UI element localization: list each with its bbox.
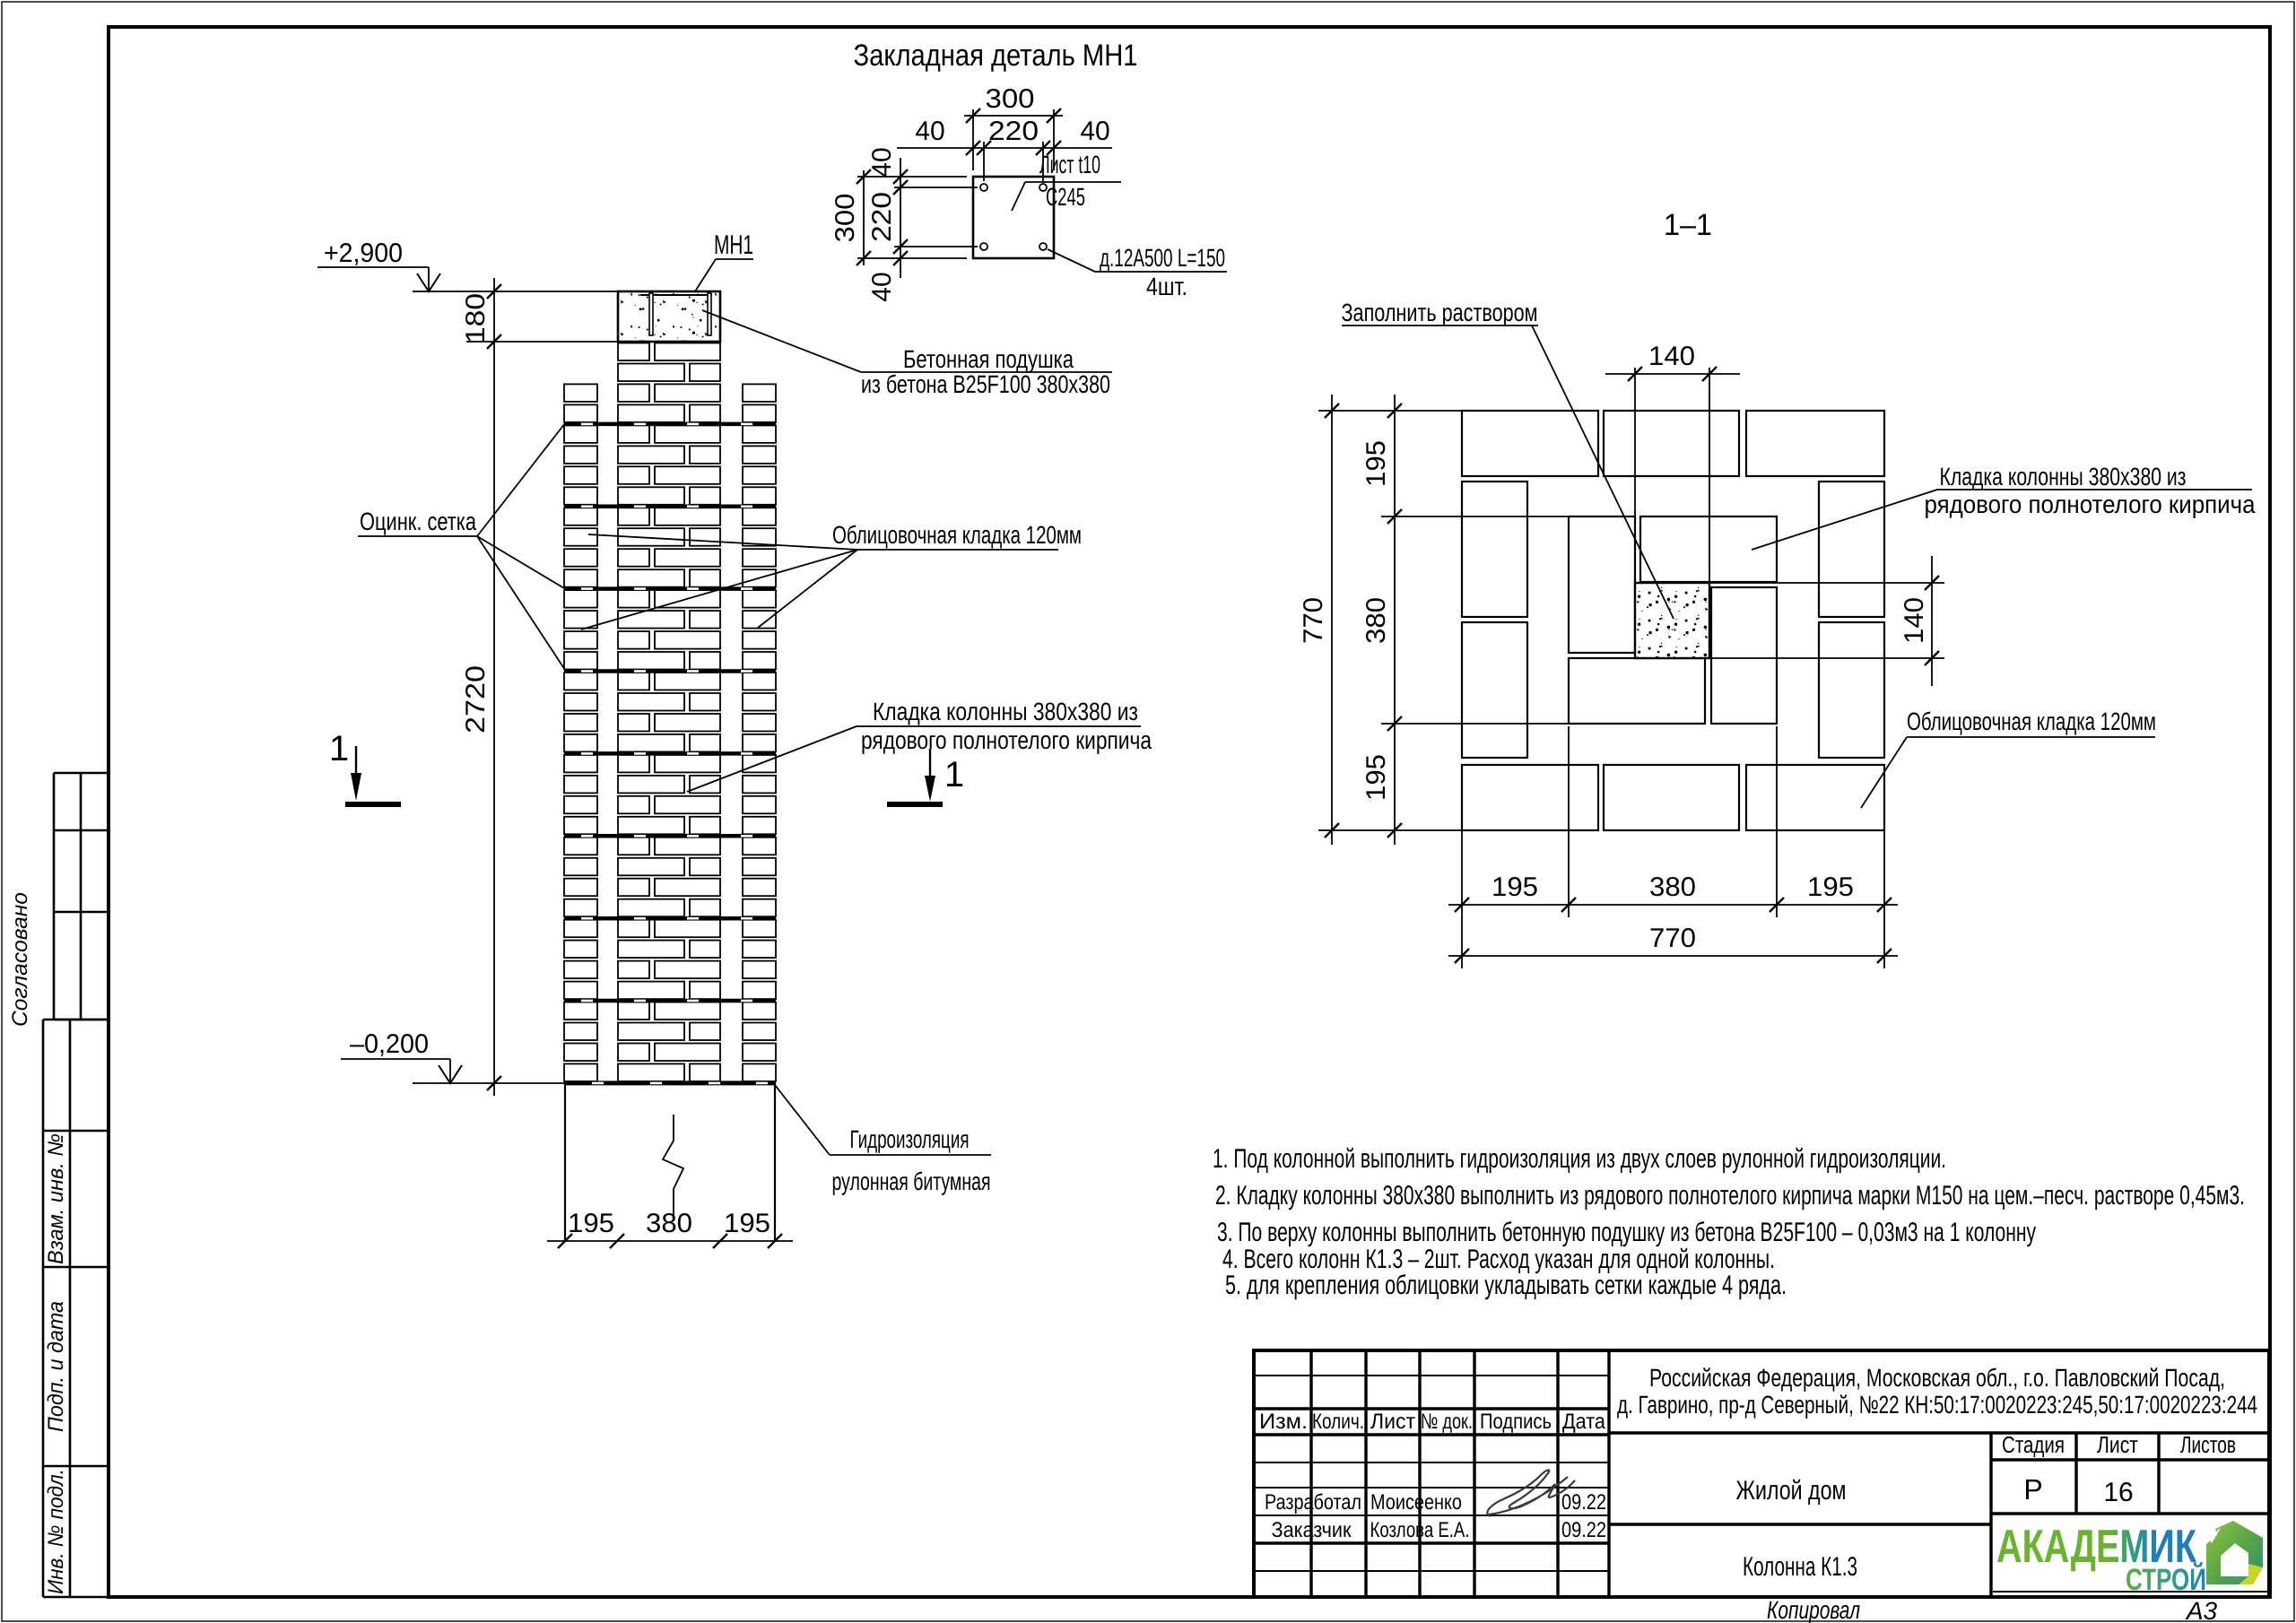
svg-text:195: 195 [1361,440,1391,487]
svg-text:09.22: 09.22 [1561,1518,1606,1542]
svg-text:380: 380 [1649,872,1696,902]
svg-text:5. для крепления облицовки укл: 5. для крепления облицовки укладывать се… [1225,1271,1787,1300]
svg-text:195: 195 [724,1209,770,1238]
svg-text:рядового полнотелого кирпича: рядового полнотелого кирпича [861,726,1152,754]
plate МН1 on pad [640,294,712,296]
svg-text:Взам. инв. №: Взам. инв. № [44,1133,68,1264]
svg-text:220: 220 [988,117,1039,146]
svg-text:+2,900: +2,900 [324,239,403,268]
left dim line 770 [1331,395,1333,845]
svg-text:1: 1 [944,755,964,794]
svg-text:Лист t10: Лист t10 [1039,151,1100,178]
svg-text:16: 16 [2103,1478,2133,1507]
bottom dim line 195/380/195 [1448,904,1898,906]
svg-text:770: 770 [1299,597,1328,644]
svg-text:Козлова Е.А.: Козлова Е.А. [1370,1518,1470,1542]
svg-text:МН1: МН1 [714,230,753,260]
extension lines left [857,176,967,178]
svg-text:из бетона В25F100 380х380: из бетона В25F100 380х380 [861,370,1110,398]
svg-text:Жилой дом: Жилой дом [1736,1476,1847,1506]
svg-text:4шт.: 4шт. [1146,273,1187,300]
signature squiggle [1487,1470,1575,1516]
svg-text:Инв. № подл.: Инв. № подл. [44,1469,68,1594]
svg-text:Заполнить раствором: Заполнить раствором [1342,299,1538,326]
svg-text:Лист: Лист [2097,1431,2138,1458]
extension line pad bottom [466,341,618,343]
svg-text:Листов: Листов [2180,1431,2236,1458]
svg-text:2. Кладку колонны 380х380 выпо: 2. Кладку колонны 380х380 выполнить из р… [1215,1181,2245,1211]
svg-text:Моисеенко: Моисеенко [1370,1490,1462,1515]
svg-text:Закладная деталь МН1: Закладная деталь МН1 [854,39,1138,73]
svg-text:770: 770 [1649,924,1696,953]
svg-text:Разработал: Разработал [1265,1490,1361,1515]
break (zigzag) symbol in foundation [663,1115,683,1216]
leader д.12А500 L=150 / 4шт. [1048,249,1095,272]
brick rows: inner column + facing [564,343,776,1081]
bottom dims extensions [1461,830,1463,968]
svg-text:Лист: Лист [1370,1410,1415,1434]
dim 140 top [1605,373,1740,375]
svg-text:09.22: 09.22 [1561,1490,1606,1515]
title block grid [1254,1350,2269,1597]
svg-text:195: 195 [1361,754,1391,801]
svg-text:Гидроизоляция: Гидроизоляция [850,1125,970,1153]
svg-text:380: 380 [646,1209,692,1238]
svg-text:СТРОЙ: СТРОЙ [2126,1562,2206,1597]
approval table upper [54,772,109,775]
section mark 1 (left) [355,746,357,775]
facing ring bricks (plan) [1462,411,1884,830]
svg-text:Дата: Дата [1562,1410,1606,1434]
svg-text:40: 40 [915,117,944,146]
leader Лист t10 / С245 [1012,182,1025,211]
anchor bars in pad [649,293,653,335]
dim 40/220/40 top [897,147,1112,149]
svg-text:Подп. и дата: Подп. и дата [44,1301,68,1432]
bottom dimension of foundation 195/380/195 [547,1240,793,1242]
left dims extensions [1318,410,1462,412]
svg-text:1. Под колонной выполнить гидр: 1. Под колонной выполнить гидроизоляция … [1213,1144,1946,1174]
leader Бетонная подушка [702,310,861,372]
svg-text:195: 195 [568,1209,614,1238]
extension lines top [972,109,974,170]
leader Гидроизоляция рулонная битумная [775,1085,830,1155]
svg-text:Подпись: Подпись [1480,1410,1552,1434]
svg-text:Изм.: Изм. [1259,1410,1308,1434]
inner column pinwheel bricks [1569,516,1777,724]
svg-text:Бетонная подушка: Бетонная подушка [903,345,1074,373]
svg-text:2720: 2720 [461,665,491,733]
svg-text:Кладка колонны 380х380 из: Кладка колонны 380х380 из [873,698,1138,725]
svg-text:Копировал: Копировал [1767,1596,1860,1623]
svg-text:140: 140 [1648,342,1695,371]
left margin label cells [43,1019,109,1021]
svg-text:180: 180 [461,293,491,343]
svg-text:–0,200: –0,200 [350,1029,429,1059]
svg-text:Р: Р [2023,1473,2042,1506]
svg-text:Российская Федерация, Московск: Российская Федерация, Московская обл., г… [1649,1364,2225,1392]
svg-text:40: 40 [867,147,897,177]
galvanized mesh rows (thick with white dashes) [564,422,776,427]
svg-text:Кладка колонны 380х380 из: Кладка колонны 380х380 из [1940,463,2187,490]
dim 140 top extensions [1634,368,1636,583]
svg-text:40: 40 [1080,117,1109,146]
svg-text:140: 140 [1900,597,1929,644]
bituminous waterproofing (thick line at column base) [564,1081,776,1085]
anchor holes [980,184,987,191]
svg-text:3. По верху колонны выполнить: 3. По верху колонны выполнить бетонную п… [1217,1218,2036,1247]
svg-text:д. Гаврино, пр-д Северный, №22: д. Гаврино, пр-д Северный, №22 КН:50:17:… [1617,1391,2257,1419]
left dim line 195/380/195 [1394,395,1396,845]
svg-text:Облицовочная кладка 120мм: Облицовочная кладка 120мм [832,521,1082,549]
svg-text:380: 380 [1361,597,1391,644]
svg-text:Стадия: Стадия [2002,1431,2065,1458]
svg-text:д.12А500 L=150: д.12А500 L=150 [1100,244,1225,272]
level line / extension -0,200 [413,1082,565,1084]
svg-text:300: 300 [831,194,860,243]
svg-text:Колонна К1.3: Колонна К1.3 [1743,1552,1857,1582]
level line / extension +2,900 [413,291,628,292]
svg-text:Облицовочная кладка 120мм: Облицовочная кладка 120мм [1907,707,2156,735]
concrete pad B25F100 with stipple [618,291,720,342]
dim 300 left [863,170,865,265]
dim 300 top [964,115,1063,117]
svg-text:А3: А3 [2185,1597,2218,1623]
svg-text:195: 195 [1807,872,1854,902]
vertical dimension line 180 / 2720 [493,278,495,1096]
plate МН1 300x300 plan [973,177,1054,258]
foundation below column [564,1083,566,1241]
svg-text:рядового полнотелого кирпича: рядового полнотелого кирпича [1925,490,2256,518]
svg-text:220: 220 [867,192,897,242]
svg-text:Колич.: Колич. [1312,1410,1364,1434]
svg-text:Согласовано: Согласовано [8,892,32,1027]
dim 140 right [1931,556,1933,686]
concrete core (fill with mortar) [1635,583,1709,658]
svg-text:1–1: 1–1 [1664,208,1712,242]
svg-text:Оцинк. сетка: Оцинк. сетка [360,508,476,535]
svg-text:Заказчик: Заказчик [1272,1518,1352,1542]
svg-text:№ док.: № док. [1421,1410,1473,1434]
logo house icon [2206,1521,2263,1584]
svg-text:300: 300 [986,84,1035,114]
dim 40/220/40 left [900,158,901,278]
svg-text:1: 1 [329,729,349,768]
section mark 1 (right) [929,749,931,777]
svg-text:195: 195 [1492,872,1538,902]
svg-text:С245: С245 [1046,183,1085,211]
dim 140 right extensions [1709,582,1944,584]
svg-text:40: 40 [867,272,897,301]
bottom dim line 770 [1448,955,1898,957]
svg-text:рулонная битумная: рулонная битумная [832,1167,991,1195]
